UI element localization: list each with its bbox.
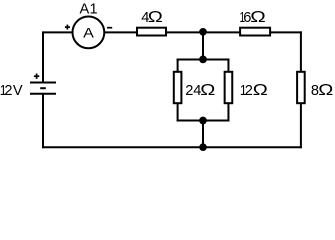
resistor 12ohm body	[225, 72, 233, 103]
wire parallel top rail	[177, 59, 230, 61]
label 8ohm	[311, 81, 333, 99]
wire stub bottom of 12ohm	[227, 103, 229, 121]
ammeter A1 circle	[73, 17, 105, 49]
svg-text:A: A	[80, 2, 90, 18]
label A1	[80, 2, 98, 18]
svg-text:Ω: Ω	[148, 8, 163, 25]
wire stub bottom of 24ohm	[177, 103, 179, 121]
wire right rail lower segment	[300, 103, 302, 148]
wire top-left horizontal from left rail to ammeter	[43, 31, 73, 33]
resistor 4ohm body	[137, 28, 166, 36]
svg-text:Ω: Ω	[200, 81, 215, 98]
label 4ohm	[141, 8, 163, 26]
resistor 24ohm body	[174, 72, 182, 103]
svg-text:Ω: Ω	[253, 81, 268, 98]
battery plus polarity mark	[34, 74, 39, 79]
ammeter minus polarity mark	[107, 27, 112, 29]
wire ammeter to resistor 4ohm	[105, 31, 138, 33]
node junction dot on parallel top rail	[199, 56, 207, 64]
label 16ohm	[240, 8, 266, 26]
svg-text:A: A	[83, 25, 95, 41]
svg-text:2: 2	[245, 83, 253, 99]
wire resistor 4ohm to resistor 16ohm	[166, 31, 240, 33]
wire left rail upper segment	[42, 31, 44, 81]
label 12ohm	[240, 81, 268, 99]
battery 12V plate positive	[30, 82, 56, 84]
svg-text:2: 2	[4, 83, 12, 99]
label 24ohm	[185, 81, 215, 99]
wire resistor 16ohm to top-right corner	[270, 31, 302, 33]
svg-text:Ω: Ω	[318, 81, 333, 98]
svg-text:2: 2	[185, 83, 193, 99]
svg-text:1: 1	[90, 2, 98, 18]
node junction dot on bottom wire	[199, 143, 207, 151]
ammeter plus polarity mark	[65, 25, 70, 30]
node junction dot on parallel bottom rail	[199, 117, 207, 125]
wire right rail upper segment	[300, 31, 302, 72]
wire left rail lower segment	[42, 94, 44, 148]
battery 12V plate negative	[30, 93, 56, 95]
battery minus polarity mark	[40, 87, 46, 89]
label 12V	[0, 82, 23, 99]
wire middle vertical from top wire to parallel top rail	[202, 32, 204, 59]
wire stub top of 12ohm	[227, 59, 229, 73]
node junction dot on top wire	[199, 28, 207, 36]
resistor 16ohm body	[240, 28, 270, 36]
svg-text:V: V	[13, 83, 23, 99]
wire bottom horizontal	[42, 146, 302, 148]
wire middle vertical from parallel bottom rail to bottom wire	[202, 121, 204, 148]
wire stub top of 24ohm	[177, 59, 179, 73]
resistor 8ohm body	[297, 72, 305, 103]
svg-text:Ω: Ω	[250, 8, 265, 26]
wire parallel bottom rail	[177, 120, 230, 122]
